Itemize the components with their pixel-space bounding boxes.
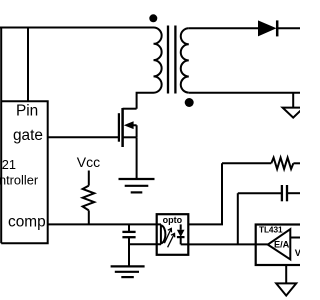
- transformer T1 primary winding: [154, 28, 162, 93]
- wire R2 to edge: [293, 162, 300, 164]
- wire secondary bottom rail: [189, 92, 300, 94]
- transformer T1 secondary winding: [181, 28, 189, 92]
- wire R1 to comp rail: [88, 210, 90, 224]
- capacitor C1 (comp): [122, 224, 135, 266]
- wire C2 to edge: [287, 192, 300, 194]
- ground (Q1 source): [119, 179, 155, 192]
- opto light arrow 2: [168, 233, 175, 247]
- wire top input rail: [0, 27, 154, 29]
- wire C2 node down to E/A input: [237, 193, 239, 244]
- transformer T1 core: [167, 26, 169, 94]
- wire gate: [48, 136, 119, 138]
- ground arrow (output return): [283, 108, 304, 118]
- wire C2 left lead: [238, 192, 282, 194]
- wire TL431 to ground arrow: [285, 265, 287, 283]
- wire comp rail: [48, 223, 161, 225]
- wire opto anode to R2: [188, 163, 222, 224]
- wire Q1 source to ground: [136, 137, 138, 178]
- wire left edge vertical: [0, 28, 2, 244]
- optocoupler U2 box: [157, 214, 189, 255]
- ground arrow (TL431): [276, 283, 296, 295]
- TL431 U3 box: [256, 225, 311, 266]
- opto light arrow 1: [164, 228, 171, 243]
- ground (C1): [111, 266, 145, 277]
- resistor R1 (Vcc to comp): [83, 186, 95, 211]
- wire opto emitter to C1 node: [129, 243, 161, 245]
- controller U1 box: [1, 101, 48, 243]
- transistor Q1 MOSFET: [119, 108, 137, 147]
- svg-text:E/A: E/A: [274, 240, 290, 250]
- wire to output return arrow: [292, 93, 294, 107]
- svg-text:Vcc: Vcc: [77, 154, 100, 170]
- wire E/A output: [290, 237, 300, 239]
- svg-text:Pin: Pin: [16, 102, 38, 119]
- svg-text:TL431: TL431: [259, 225, 283, 235]
- wire R2 lead: [222, 162, 271, 164]
- secondary polarity dot: [185, 98, 194, 107]
- opto phototransistor: [161, 224, 166, 244]
- wire secondary top to diode: [189, 27, 258, 29]
- svg-text:opto: opto: [163, 215, 183, 225]
- svg-text:gate: gate: [13, 127, 43, 144]
- op-amp E/A triangle: [268, 229, 291, 259]
- svg-text:21: 21: [2, 157, 16, 172]
- wire opto cathode to TL431 input: [181, 243, 268, 245]
- resistor R2 (feedback): [271, 158, 293, 169]
- svg-text:comp: comp: [8, 214, 46, 231]
- primary polarity dot: [149, 14, 157, 22]
- capacitor C2 (feedback): [282, 185, 287, 201]
- wire Pin connection: [27, 28, 29, 102]
- svg-text:ntroller: ntroller: [0, 172, 39, 187]
- wire primary to Q1 drain: [137, 93, 154, 109]
- opto LED D2: [177, 224, 185, 244]
- wire Vcc lead: [88, 171, 90, 186]
- svg-text:V: V: [295, 248, 300, 258]
- diode D1 output rectifier: [258, 20, 300, 36]
